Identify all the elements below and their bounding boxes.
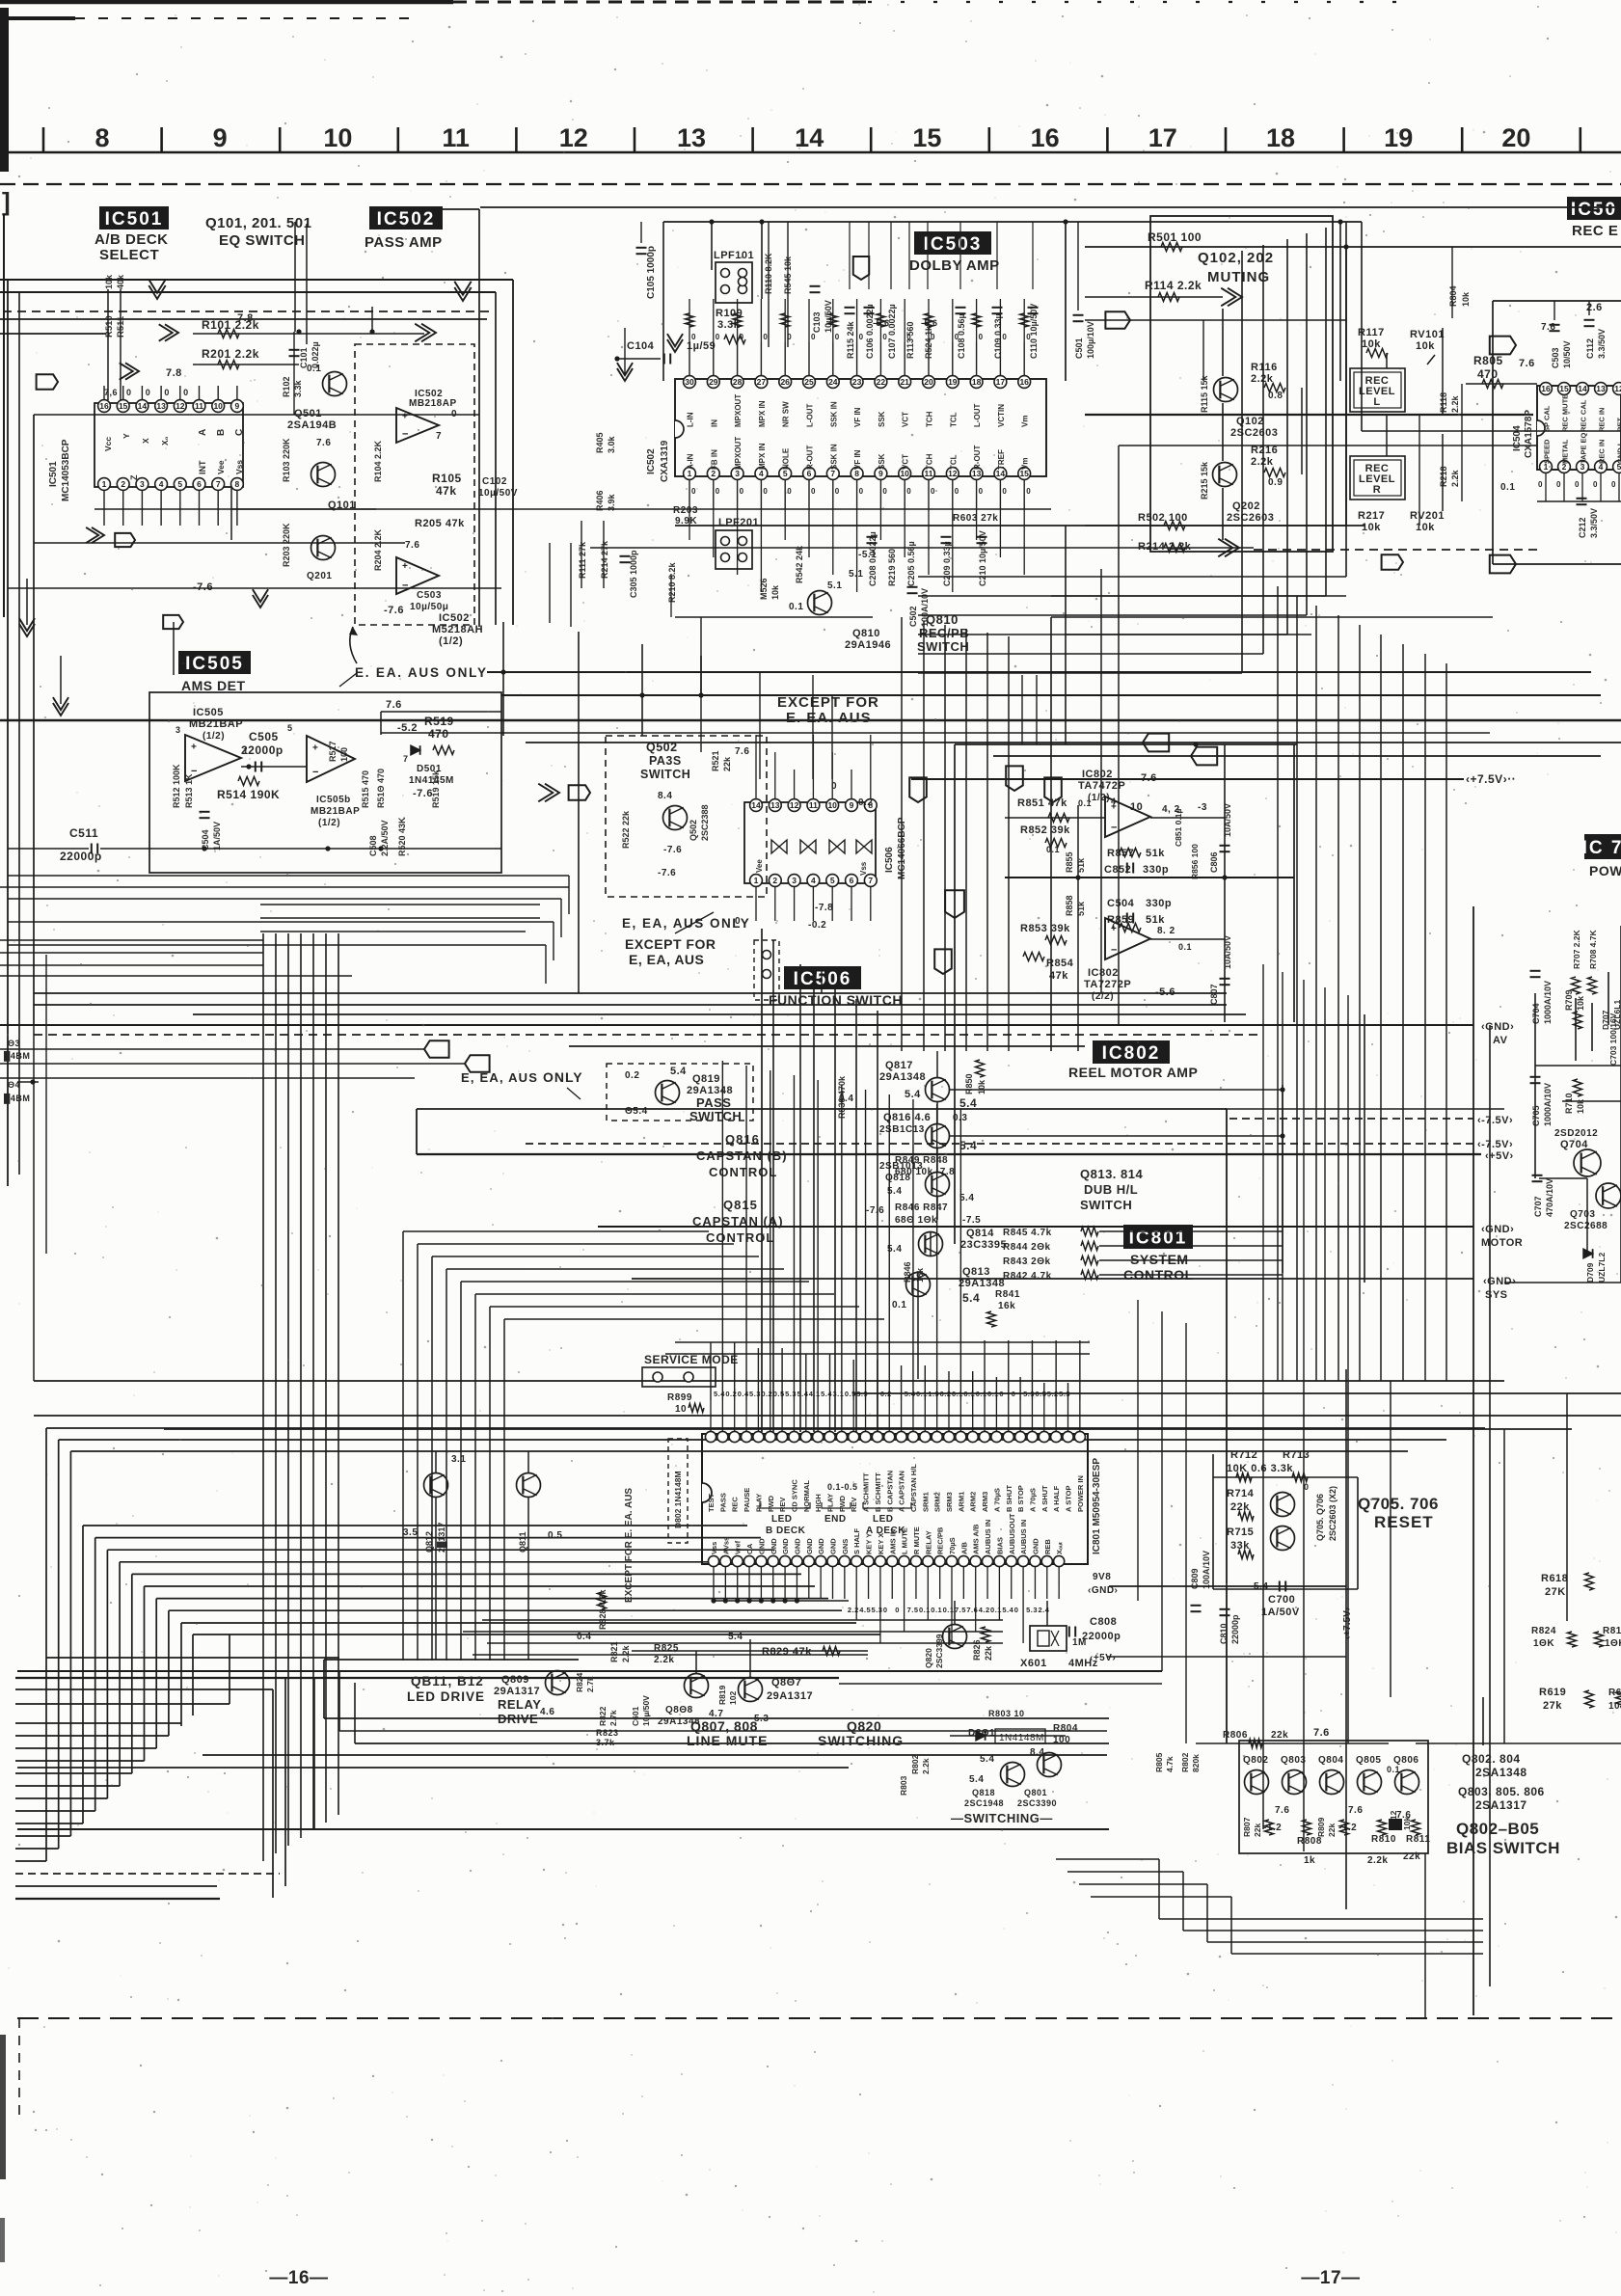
svg-text:R114 2.2k: R114 2.2k bbox=[1145, 279, 1202, 292]
svg-text:RELAY: RELAY bbox=[498, 1697, 541, 1712]
svg-text:0: 0 bbox=[906, 487, 911, 496]
svg-text:REV: REV bbox=[778, 1498, 787, 1512]
svg-text:10k: 10k bbox=[1576, 995, 1585, 1011]
svg-text:Q501: Q501 bbox=[294, 408, 322, 419]
down arrows left bbox=[19, 624, 35, 636]
svg-text:7.6: 7.6 bbox=[386, 699, 402, 711]
svg-text:100: 100 bbox=[339, 747, 349, 762]
svg-text:0: 0 bbox=[164, 388, 170, 397]
svg-text:0.2: 0.2 bbox=[880, 1390, 892, 1398]
svg-text:24: 24 bbox=[828, 377, 838, 387]
svg-text:VCT: VCT bbox=[902, 412, 910, 427]
svg-text:0.1: 0.1 bbox=[963, 1390, 975, 1398]
svg-text:6: 6 bbox=[850, 876, 854, 885]
svg-text:GND: GND bbox=[829, 1538, 838, 1554]
svg-text:5.4: 5.4 bbox=[1002, 1606, 1013, 1614]
svg-text:REC/PB: REC/PB bbox=[919, 626, 969, 640]
svg-text:30: 30 bbox=[685, 377, 694, 387]
svg-text:CAPSTAN H/L: CAPSTAN H/L bbox=[909, 1464, 918, 1512]
svg-text:R522 22k: R522 22k bbox=[621, 810, 631, 849]
svg-text:CD SYNC: CD SYNC bbox=[790, 1479, 798, 1512]
svg-text:VF IN: VF IN bbox=[853, 449, 862, 470]
svg-text:22k: 22k bbox=[1327, 1823, 1337, 1837]
svg-text:7.6: 7.6 bbox=[1313, 1727, 1330, 1739]
svg-text:Θ5.4: Θ5.4 bbox=[625, 1106, 648, 1117]
svg-text:7.8: 7.8 bbox=[166, 367, 182, 379]
svg-text:Q803: Q803 bbox=[1281, 1755, 1306, 1766]
svg-text:C704: C704 bbox=[1531, 1003, 1541, 1024]
svg-text:IC502: IC502 bbox=[377, 209, 436, 230]
svg-text:SYSTEM: SYSTEM bbox=[1130, 1252, 1189, 1267]
svg-text:R512 100K: R512 100K bbox=[172, 764, 181, 808]
svg-text:R853 39k: R853 39k bbox=[1020, 923, 1070, 934]
svg-text:MPX IN: MPX IN bbox=[758, 400, 767, 427]
svg-text:23: 23 bbox=[852, 377, 862, 387]
svg-text:R-OUT: R-OUT bbox=[806, 446, 815, 470]
svg-text:10k: 10k bbox=[770, 584, 780, 600]
svg-text:16k: 16k bbox=[998, 1301, 1015, 1311]
svg-text:16k: 16k bbox=[915, 1267, 925, 1283]
svg-text:R802: R802 bbox=[910, 1754, 920, 1774]
svg-text:R8110: R8110 bbox=[1603, 1626, 1621, 1636]
svg-text:Q801: Q801 bbox=[1024, 1788, 1047, 1797]
svg-text:3.3/50V: 3.3/50V bbox=[1589, 508, 1599, 538]
svg-text:2.4: 2.4 bbox=[1038, 1606, 1049, 1614]
svg-text:330p: 330p bbox=[1146, 898, 1172, 909]
svg-text:R707 2.2K: R707 2.2K bbox=[1572, 930, 1581, 969]
svg-text:5.4: 5.4 bbox=[980, 1754, 994, 1765]
svg-text:R513 1K: R513 1K bbox=[184, 773, 194, 808]
svg-text:1A/50V: 1A/50V bbox=[212, 822, 222, 851]
svg-text:A-IN: A-IN bbox=[687, 453, 695, 470]
svg-text:-7.6: -7.6 bbox=[658, 868, 676, 878]
svg-text:0: 0 bbox=[451, 409, 457, 419]
svg-text:R807: R807 bbox=[1242, 1817, 1252, 1837]
svg-text:L: L bbox=[1373, 396, 1380, 408]
svg-text:R102: R102 bbox=[282, 376, 291, 397]
svg-text:2SC2603: 2SC2603 bbox=[1227, 512, 1274, 524]
svg-text:Q705. Q706: Q705. Q706 bbox=[1315, 1494, 1325, 1541]
svg-text:SELECT: SELECT bbox=[99, 247, 159, 263]
svg-text:TEST: TEST bbox=[707, 1493, 716, 1512]
svg-text:R116: R116 bbox=[1251, 362, 1278, 373]
svg-text:10k: 10k bbox=[1362, 522, 1381, 533]
wires down from bus bbox=[502, 622, 504, 736]
svg-text:1.9: 1.9 bbox=[928, 1390, 939, 1398]
bias switch box bbox=[1239, 1741, 1428, 1853]
svg-text:27K: 27K bbox=[1545, 1586, 1566, 1598]
svg-text:+: + bbox=[191, 742, 197, 752]
IC501 label bbox=[99, 206, 169, 230]
svg-text:10K 0.6 3.3k: 10K 0.6 3.3k bbox=[1227, 1463, 1293, 1474]
svg-text:SRM3: SRM3 bbox=[945, 1492, 954, 1512]
svg-text:R406: R406 bbox=[595, 490, 605, 511]
svg-text:FB IN: FB IN bbox=[710, 449, 718, 470]
svg-text:0: 0 bbox=[999, 1390, 1004, 1398]
svg-text:CXA1578P: CXA1578P bbox=[1524, 410, 1534, 458]
svg-text:IC50: IC50 bbox=[1571, 200, 1617, 220]
svg-text:C806: C806 bbox=[1209, 851, 1219, 873]
svg-text:Xₒᵤₜ: Xₒᵤₜ bbox=[1055, 1541, 1064, 1554]
svg-text:REEL MOTOR AMP: REEL MOTOR AMP bbox=[1068, 1065, 1198, 1080]
svg-text:REC/PB: REC/PB bbox=[936, 1526, 945, 1554]
svg-text:R824: R824 bbox=[575, 1672, 584, 1692]
svg-text:0.9: 0.9 bbox=[1268, 477, 1283, 488]
grid ruler baseline bbox=[4, 151, 1621, 154]
svg-text:Q819: Q819 bbox=[692, 1073, 720, 1085]
svg-text:R517: R517 bbox=[328, 741, 338, 762]
op-amp IC505 second half bbox=[307, 736, 355, 782]
svg-text:Q817: Q817 bbox=[885, 1060, 913, 1071]
svg-text:R-OUT: R-OUT bbox=[973, 446, 982, 470]
svg-text:R842 4.7k: R842 4.7k bbox=[1003, 1271, 1052, 1282]
Q806 left transistor bbox=[546, 1671, 570, 1695]
horizontal bus rows mid page bbox=[0, 886, 569, 888]
svg-text:MOTOR: MOTOR bbox=[1481, 1237, 1523, 1249]
svg-text:7.6: 7.6 bbox=[1275, 1805, 1289, 1816]
svg-text:C707: C707 bbox=[1533, 1196, 1543, 1217]
svg-text:C102: C102 bbox=[482, 476, 507, 487]
svg-text:—SWITCHING—: —SWITCHING— bbox=[951, 1811, 1053, 1825]
svg-text:4.1: 4.1 bbox=[809, 1390, 821, 1398]
svg-text:5.4: 5.4 bbox=[959, 1139, 977, 1152]
svg-text:4.6: 4.6 bbox=[540, 1707, 554, 1717]
svg-text:−: − bbox=[312, 767, 318, 778]
svg-text:R405: R405 bbox=[595, 432, 605, 453]
REC LEVEL L box bbox=[1350, 368, 1405, 412]
svg-text:0.1: 0.1 bbox=[916, 1390, 928, 1398]
svg-text:2.2k: 2.2k bbox=[1367, 1855, 1388, 1866]
svg-text:A STOP: A STOP bbox=[1065, 1485, 1073, 1512]
svg-text:0: 0 bbox=[183, 388, 189, 397]
bus under IC801 bbox=[482, 1619, 1003, 1621]
svg-text:R805: R805 bbox=[1473, 354, 1503, 367]
svg-text:D709: D709 bbox=[1585, 1262, 1595, 1283]
relay drive box bbox=[324, 1659, 579, 1661]
dashed separator line under ruler bbox=[0, 183, 1621, 185]
svg-text:SSK IN: SSK IN bbox=[829, 401, 838, 427]
svg-text:2SC2603 (X2): 2SC2603 (X2) bbox=[1328, 1486, 1337, 1541]
svg-text:3.1: 3.1 bbox=[833, 1390, 845, 1398]
svg-text:Q813. 814: Q813. 814 bbox=[1080, 1167, 1143, 1181]
svg-text:10k: 10k bbox=[104, 274, 114, 289]
svg-text:LED: LED bbox=[771, 1514, 793, 1525]
svg-text:23C3395: 23C3395 bbox=[960, 1239, 1007, 1251]
svg-text:IC802: IC802 bbox=[1102, 1043, 1161, 1064]
svg-text:-7.8: -7.8 bbox=[815, 903, 833, 913]
svg-text:C508: C508 bbox=[368, 835, 378, 856]
svg-text:Q815: Q815 bbox=[723, 1198, 758, 1212]
svg-text:X: X bbox=[141, 438, 150, 444]
svg-text:Q820: Q820 bbox=[924, 1648, 933, 1668]
svg-text:0.5: 0.5 bbox=[845, 1390, 856, 1398]
Q801 transistor bbox=[1038, 1753, 1062, 1777]
svg-text:0: 0 bbox=[1556, 480, 1561, 489]
wire grid under dolby bbox=[231, 508, 1051, 510]
svg-text:5.3: 5.3 bbox=[1023, 1390, 1035, 1398]
svg-text:2.2k: 2.2k bbox=[1450, 394, 1460, 413]
svg-text:1N4148M: 1N4148M bbox=[999, 1733, 1044, 1743]
svg-text:5.4: 5.4 bbox=[670, 1066, 687, 1077]
svg-text:0.1: 0.1 bbox=[990, 1606, 1002, 1614]
svg-text:A/B: A/B bbox=[959, 1542, 968, 1555]
svg-text:0: 0 bbox=[835, 333, 840, 341]
svg-text:0: 0 bbox=[931, 487, 935, 496]
op-amp IC505 first half bbox=[185, 735, 241, 781]
svg-text:2.2: 2.2 bbox=[848, 1606, 859, 1614]
svg-text:0: 0 bbox=[126, 388, 132, 397]
svg-text:5.4: 5.4 bbox=[959, 1193, 974, 1203]
svg-text:R515 470: R515 470 bbox=[361, 770, 370, 808]
svg-text:IC501: IC501 bbox=[48, 461, 59, 487]
svg-text:R899: R899 bbox=[667, 1392, 692, 1403]
Q818 transistor bbox=[926, 1173, 950, 1197]
svg-text:R846: R846 bbox=[903, 1261, 912, 1283]
svg-text:C810: C810 bbox=[1219, 1623, 1229, 1644]
svg-text:MB218AP: MB218AP bbox=[409, 398, 457, 409]
svg-text:5: 5 bbox=[830, 876, 835, 885]
reset block verticals bbox=[1212, 1454, 1214, 1589]
svg-text:10k: 10k bbox=[1402, 1817, 1412, 1830]
svg-text:3: 3 bbox=[140, 479, 145, 489]
svg-text:47k: 47k bbox=[436, 484, 457, 498]
svg-text:R712: R712 bbox=[1230, 1449, 1257, 1461]
svg-text:19: 19 bbox=[948, 377, 958, 387]
svg-text:51k: 51k bbox=[1146, 914, 1165, 926]
nested bus bottom-left horizontals bbox=[15, 1860, 46, 1862]
svg-text:Q705. 706: Q705. 706 bbox=[1358, 1495, 1439, 1513]
bias resistors vertical bbox=[1265, 1820, 1274, 1835]
svg-text:2SC1948: 2SC1948 bbox=[964, 1798, 1004, 1808]
svg-text:5.4: 5.4 bbox=[962, 1291, 980, 1305]
svg-text:22k: 22k bbox=[1271, 1730, 1288, 1741]
svg-text:R210 8.2k: R210 8.2k bbox=[667, 561, 677, 603]
svg-text:22k: 22k bbox=[1253, 1823, 1262, 1837]
nest feeder verticals from bus bbox=[272, 1689, 274, 1898]
IC504 label bbox=[1567, 197, 1621, 220]
Q814 transistor bbox=[919, 1232, 943, 1256]
svg-text:-7.6: -7.6 bbox=[193, 581, 213, 593]
svg-text:22000p: 22000p bbox=[1082, 1631, 1121, 1642]
Q817 transistor bbox=[926, 1078, 950, 1102]
svg-text:2SC3390: 2SC3390 bbox=[1017, 1798, 1057, 1808]
IC506 label pointer bbox=[821, 969, 823, 993]
svg-text:Q811: Q811 bbox=[518, 1531, 527, 1553]
svg-text:0.1: 0.1 bbox=[892, 1300, 906, 1310]
svg-text:IN: IN bbox=[710, 419, 718, 427]
svg-text:R843 2Θk: R843 2Θk bbox=[1003, 1256, 1051, 1267]
muting block outer box bbox=[1150, 216, 1333, 552]
svg-text:GND: GND bbox=[805, 1538, 814, 1554]
R217 bottom wires bbox=[1085, 525, 1346, 527]
wire bbox=[675, 616, 873, 618]
svg-text:QB11, B12: QB11, B12 bbox=[411, 1674, 484, 1688]
svg-text:C808: C808 bbox=[1090, 1616, 1117, 1628]
svg-text:Q202: Q202 bbox=[1232, 500, 1260, 512]
bottom rail lines bbox=[17, 1828, 1109, 1830]
arrows right of Q810 bbox=[1382, 554, 1403, 569]
svg-text:11: 11 bbox=[809, 800, 818, 810]
svg-text:8. 2: 8. 2 bbox=[1157, 926, 1175, 936]
IC501 chip MC14053BCP bbox=[95, 403, 243, 487]
IC504 chip body bbox=[1537, 386, 1621, 470]
D802 dashed diode box bbox=[668, 1439, 688, 1543]
svg-text:1ΘK: 1ΘK bbox=[1605, 1638, 1621, 1649]
svg-text:AVss: AVss bbox=[721, 1537, 730, 1554]
svg-text:SSK IN: SSK IN bbox=[829, 444, 838, 470]
svg-text:0: 0 bbox=[691, 333, 696, 341]
svg-text:B SCHMITT: B SCHMITT bbox=[874, 1472, 882, 1512]
svg-text:2.2k: 2.2k bbox=[1251, 373, 1274, 385]
svg-text:MPXOUT: MPXOUT bbox=[734, 437, 743, 470]
svg-text:MPXOUT: MPXOUT bbox=[734, 394, 743, 427]
svg-text:0.5: 0.5 bbox=[548, 1530, 562, 1541]
svg-text:SYS: SYS bbox=[1485, 1289, 1508, 1301]
svg-text:R618: R618 bbox=[1541, 1573, 1568, 1584]
bottom dashed border bbox=[17, 2017, 1621, 2019]
arrow into IC506 bbox=[545, 784, 559, 802]
svg-text:R520 43K: R520 43K bbox=[397, 817, 407, 856]
svg-text:R115 15k: R115 15k bbox=[1200, 374, 1209, 413]
svg-text:3.3/50V: 3.3/50V bbox=[1597, 329, 1607, 359]
Q808 transistor bbox=[685, 1674, 709, 1698]
arrow right of R101 bbox=[125, 363, 139, 379]
AMS block box bbox=[149, 692, 501, 873]
svg-text:IC502: IC502 bbox=[439, 612, 470, 624]
svg-text:10k: 10k bbox=[1362, 338, 1381, 350]
svg-text:A CAPSTAN: A CAPSTAN bbox=[898, 1471, 906, 1512]
svg-text:IC 7: IC 7 bbox=[1582, 838, 1621, 858]
svg-text:7.6: 7.6 bbox=[1348, 1805, 1363, 1816]
svg-text:NOLE: NOLE bbox=[782, 447, 791, 470]
svg-text:Vcc: Vcc bbox=[103, 437, 113, 451]
Q816 transistor bbox=[926, 1124, 950, 1148]
svg-text:R203: R203 bbox=[673, 505, 698, 516]
svg-text:2.2k: 2.2k bbox=[654, 1655, 674, 1665]
svg-text:R113 560: R113 560 bbox=[905, 321, 915, 359]
svg-text:5.4: 5.4 bbox=[728, 1632, 743, 1642]
IC802 label bbox=[1093, 1040, 1170, 1064]
svg-text:R215 15k: R215 15k bbox=[1200, 461, 1209, 500]
svg-text:0: 0 bbox=[1593, 480, 1598, 489]
svg-text:VF IN: VF IN bbox=[853, 407, 862, 427]
verticals at x1180-1260 crossing lower mid bbox=[1137, 1300, 1139, 1601]
svg-text:BIAS: BIAS bbox=[995, 1537, 1004, 1554]
svg-text:16: 16 bbox=[1541, 384, 1551, 393]
svg-text:5.4: 5.4 bbox=[959, 1096, 977, 1110]
svg-text:‹GND›: ‹GND› bbox=[1481, 1224, 1514, 1235]
svg-text:L-OUT: L-OUT bbox=[973, 403, 982, 427]
svg-text:0: 0 bbox=[1304, 1482, 1310, 1492]
left nested bus corners bbox=[46, 1427, 1485, 1429]
svg-text:9V8: 9V8 bbox=[1093, 1572, 1111, 1582]
svg-text:22000p: 22000p bbox=[241, 743, 284, 757]
wires right of bias bbox=[1416, 1742, 1621, 1744]
svg-text:0.2: 0.2 bbox=[858, 797, 873, 808]
svg-text:R824: R824 bbox=[1531, 1626, 1556, 1636]
svg-text:REC CAL: REC CAL bbox=[1580, 399, 1588, 432]
power rail verticals bbox=[1472, 906, 1474, 2015]
svg-text:Vee: Vee bbox=[755, 859, 764, 873]
svg-text:0: 0 bbox=[1538, 480, 1543, 489]
svg-text:0.1: 0.1 bbox=[943, 1606, 955, 1614]
svg-text:7.6: 7.6 bbox=[1141, 772, 1157, 784]
svg-text:C504: C504 bbox=[1107, 898, 1135, 909]
Q819 transistor bbox=[656, 1081, 680, 1105]
svg-text:EQ SWITCH: EQ SWITCH bbox=[219, 232, 306, 249]
svg-text:E. EA. AUS ONLY: E. EA. AUS ONLY bbox=[355, 665, 488, 680]
svg-text:ONLY: ONLY bbox=[543, 1069, 583, 1085]
AMS bottom rail bbox=[149, 848, 501, 850]
svg-text:DUB H/L: DUB H/L bbox=[1084, 1182, 1138, 1197]
svg-text:VCT: VCT bbox=[902, 454, 910, 470]
Q704 transistor bbox=[1574, 1149, 1601, 1176]
X601 crystal bbox=[1030, 1626, 1067, 1651]
bus y784 bbox=[993, 755, 1601, 757]
IC506 label bbox=[784, 966, 861, 989]
svg-text:2.2k: 2.2k bbox=[621, 1644, 631, 1662]
svg-text:5.4: 5.4 bbox=[797, 1390, 808, 1398]
svg-text:0: 0 bbox=[811, 333, 816, 341]
IC801 top pin risers tall bbox=[710, 1342, 712, 1400]
svg-text:R521: R521 bbox=[711, 750, 720, 771]
svg-text:0: 0 bbox=[1012, 1390, 1016, 1398]
svg-text:AMS DET: AMS DET bbox=[181, 678, 246, 693]
svg-text:27k: 27k bbox=[1543, 1700, 1562, 1712]
wires under muting to IC504 bbox=[1051, 595, 1346, 597]
svg-text:70µS: 70µS bbox=[948, 1537, 957, 1554]
svg-text:10A/50V: 10A/50V bbox=[1223, 935, 1232, 969]
Q102 transistor bbox=[1214, 378, 1238, 402]
svg-text:5.4: 5.4 bbox=[969, 1774, 984, 1785]
svg-text:−: − bbox=[402, 429, 408, 441]
svg-text:IC505: IC505 bbox=[193, 707, 224, 718]
svg-text:POWER: POWER bbox=[1589, 863, 1621, 878]
svg-text:IC503: IC503 bbox=[924, 234, 983, 255]
svg-text:0.1: 0.1 bbox=[1500, 482, 1515, 493]
svg-text:+: + bbox=[402, 412, 408, 422]
svg-text:7: 7 bbox=[216, 479, 221, 489]
left mesh rows 975-1010 bbox=[0, 975, 352, 977]
svg-text:3.9: 3.9 bbox=[856, 1390, 868, 1398]
svg-text:NR SW: NR SW bbox=[782, 401, 791, 427]
IC503 chip CXA1319 body bbox=[675, 379, 1046, 476]
svg-text:(1/2): (1/2) bbox=[203, 731, 225, 742]
svg-text:9: 9 bbox=[850, 800, 854, 810]
Q501 transistor 2SA1948 bbox=[323, 372, 347, 396]
svg-text:L-OUT: L-OUT bbox=[806, 403, 815, 427]
svg-text:11: 11 bbox=[195, 401, 203, 411]
svg-text:0.022µ: 0.022µ bbox=[311, 341, 320, 368]
svg-text:9: 9 bbox=[235, 401, 240, 411]
extra left edge verticals bbox=[33, 1025, 35, 1381]
svg-text:X₀: X₀ bbox=[160, 436, 170, 446]
svg-text:2: 2 bbox=[772, 876, 777, 885]
svg-text:10: 10 bbox=[675, 1404, 687, 1415]
vertical bus group left-center bbox=[262, 933, 264, 1861]
svg-text:100: 100 bbox=[1053, 1735, 1070, 1745]
IC503 bottom drop wires bbox=[689, 509, 690, 540]
stair verticals deep down bbox=[1303, 1381, 1305, 1851]
mid rail bbox=[1005, 877, 1294, 878]
svg-text:7.5: 7.5 bbox=[907, 1606, 919, 1614]
svg-text:C101: C101 bbox=[299, 347, 309, 368]
bias step wires bbox=[1056, 1858, 1159, 1860]
svg-text:R804: R804 bbox=[1448, 285, 1458, 307]
svg-text:C851 0.1µ: C851 0.1µ bbox=[1174, 809, 1183, 847]
svg-text:10µ/50V: 10µ/50V bbox=[824, 300, 833, 333]
svg-text:0.1: 0.1 bbox=[976, 1390, 987, 1398]
